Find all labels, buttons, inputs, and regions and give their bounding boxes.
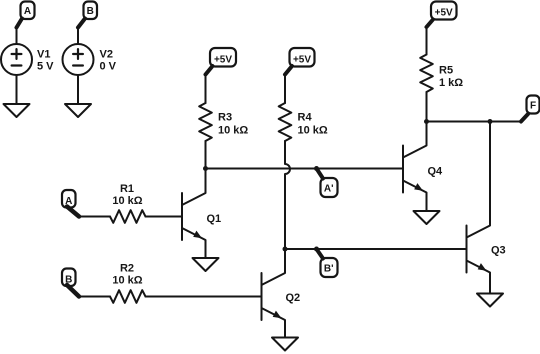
ground	[477, 294, 503, 307]
svg-text:B: B	[87, 6, 94, 17]
svg-text:+5V: +5V	[293, 54, 311, 65]
svg-text:A': A'	[324, 184, 334, 195]
svg-text:10 kΩ: 10 kΩ	[298, 125, 328, 137]
net flag +5V on R5	[427, 2, 457, 28]
wire	[426, 92, 428, 122]
svg-text:Q4: Q4	[428, 166, 444, 178]
net flag A on V1	[17, 2, 35, 28]
svg-text:A: A	[65, 196, 72, 207]
wire node B' horizontal	[285, 248, 467, 250]
svg-text:R4: R4	[298, 112, 313, 124]
wire	[79, 296, 110, 298]
wire output F	[427, 121, 522, 123]
svg-text:R5: R5	[439, 65, 453, 77]
wire	[77, 75, 79, 104]
resistor R3	[199, 103, 248, 141]
svg-text:5 V: 5 V	[37, 61, 54, 73]
resistor R1	[110, 183, 146, 223]
svg-text:Q2: Q2	[286, 292, 301, 304]
svg-text:R2: R2	[120, 263, 134, 275]
voltage source V1	[1, 44, 54, 75]
node junction R5/Q4	[424, 119, 429, 124]
transistor Q3	[467, 122, 506, 294]
resistor R2	[110, 263, 146, 303]
svg-text:10 kΩ: 10 kΩ	[112, 275, 142, 287]
wire	[77, 28, 79, 45]
svg-text:0 V: 0 V	[100, 61, 117, 73]
node B' junction	[314, 247, 319, 252]
svg-text:R1: R1	[120, 183, 134, 195]
net flag A'	[317, 169, 338, 198]
svg-text:V1: V1	[37, 49, 50, 61]
wire	[146, 216, 183, 218]
svg-text:10 kΩ: 10 kΩ	[112, 195, 142, 207]
node junction R4/Q2	[283, 247, 288, 252]
wire	[16, 28, 18, 45]
svg-text:R3: R3	[218, 112, 232, 124]
wire	[426, 27, 428, 55]
net flag F	[521, 96, 540, 122]
wire	[16, 75, 18, 104]
svg-text:1 kΩ: 1 kΩ	[439, 77, 463, 89]
node junction Q3 collector	[488, 119, 493, 124]
node A' junction at R3/Q1 collector	[203, 166, 208, 171]
svg-text:Q3: Q3	[491, 245, 506, 257]
svg-text:10 kΩ: 10 kΩ	[218, 125, 248, 137]
svg-text:V2: V2	[100, 49, 113, 61]
wire	[79, 216, 110, 218]
ground	[4, 104, 30, 117]
transistor Q2	[262, 249, 301, 338]
wire with hop over A' wire	[285, 141, 290, 249]
ground	[193, 258, 219, 271]
net flag B on V2	[78, 2, 97, 28]
svg-text:+5V: +5V	[435, 7, 453, 18]
svg-text:Q1: Q1	[207, 213, 222, 225]
wire	[205, 74, 207, 103]
wire	[284, 74, 286, 103]
net flag +5V on R4	[285, 48, 315, 75]
ground	[65, 104, 91, 117]
node A' junction	[314, 166, 319, 171]
net flag B'	[317, 249, 338, 277]
wire	[146, 296, 262, 298]
svg-text:+5V: +5V	[214, 54, 232, 65]
resistor R5	[420, 55, 463, 93]
ground	[272, 338, 298, 351]
net flag A input	[62, 190, 79, 217]
net flag +5V on R3	[206, 48, 237, 75]
svg-text:F: F	[530, 100, 536, 111]
ground	[414, 211, 440, 224]
svg-text:B: B	[65, 275, 72, 286]
svg-text:A: A	[24, 6, 31, 17]
net flag B input	[62, 269, 79, 297]
voltage source V2	[63, 44, 117, 75]
wire node A' horizontal	[206, 168, 404, 170]
transistor Q1	[182, 169, 221, 259]
resistor R4	[279, 103, 328, 141]
wire	[205, 141, 207, 169]
transistor Q4	[403, 122, 443, 212]
svg-text:B': B'	[324, 264, 334, 275]
